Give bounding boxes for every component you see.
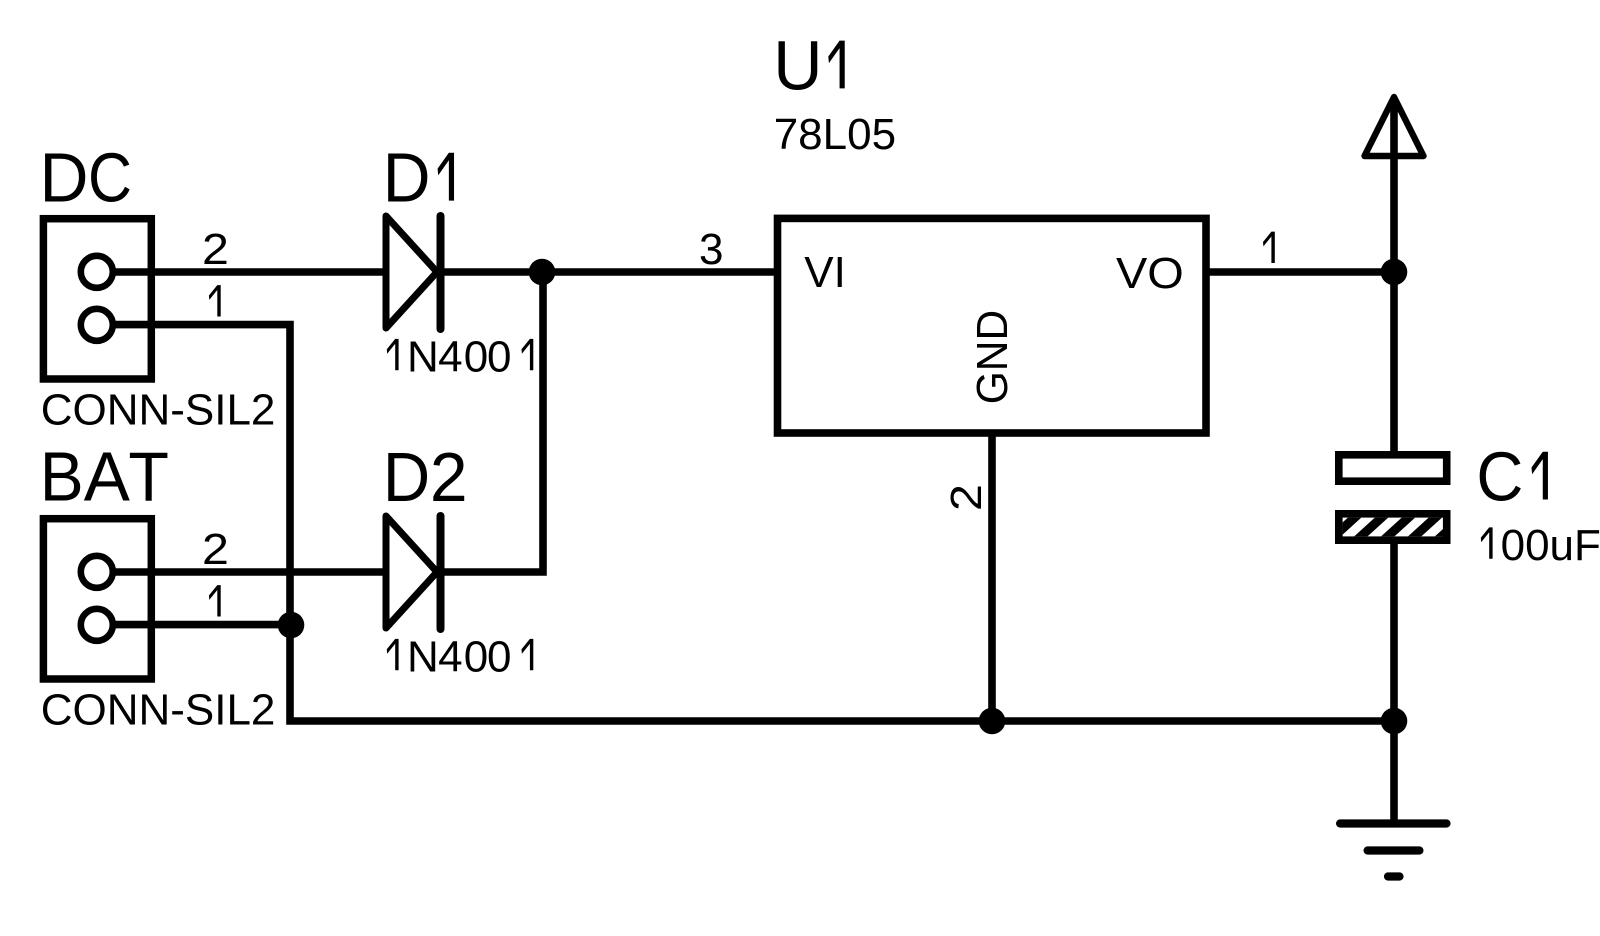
svg-text:2: 2 — [430, 438, 468, 516]
label D1 — [383, 140, 454, 217]
wire power symbol vertical down to C1 top plate — [1390, 100, 1398, 454]
wire U1 VO to output node — [1206, 268, 1394, 276]
label U1 — [773, 27, 844, 105]
svg-text:VO: VO — [1116, 249, 1184, 298]
pin label 1 (BAT) — [209, 585, 221, 616]
svg-text:2: 2 — [202, 525, 229, 574]
wire C1 bottom plate to ground rail — [1390, 541, 1398, 721]
svg-text:B: B — [40, 439, 84, 516]
wire U1 GND pin down to ground rail — [988, 433, 996, 721]
connector DC pin 2 circle — [81, 256, 113, 288]
wire DC pin2 to D1 anode — [113, 268, 388, 276]
connector J-DC box CONN-SIL2 — [43, 219, 151, 379]
power symbol arrow — [1365, 97, 1424, 156]
diode D2 cathode bar — [437, 516, 445, 629]
label 1N4001 (D1) — [387, 332, 534, 381]
svg-text:3: 3 — [699, 225, 723, 274]
junction node VO / C1 / power — [1381, 259, 1408, 286]
diode D1 triangle — [386, 216, 437, 328]
capacitor C1 top plate — [1339, 455, 1447, 481]
wire BAT pin1 to junction — [113, 621, 291, 629]
svg-text:T: T — [128, 438, 169, 516]
svg-text:2: 2 — [942, 484, 991, 511]
connector BAT pin 1 circle — [81, 609, 113, 641]
label D2 — [383, 438, 468, 516]
label 1N4001 (D2) — [387, 632, 534, 681]
svg-text:GND: GND — [968, 310, 1017, 405]
pin label 1 (VO wire) — [1263, 232, 1275, 263]
capacitor C1 bottom plate hatched — [1339, 514, 1447, 540]
svg-text:D: D — [383, 439, 430, 516]
junction node BAT pin1 / DC pin1 — [278, 612, 305, 639]
label BAT — [40, 437, 169, 516]
regulator U1 body box — [778, 218, 1207, 433]
svg-text:VI: VI — [804, 248, 846, 297]
svg-text:A: A — [84, 437, 131, 515]
wire D1 cathode to U1 VI — [440, 268, 778, 276]
wire DC pin1 down and bottom ground rail to C1 — [113, 325, 1394, 721]
svg-text:CONN-SIL2: CONN-SIL2 — [41, 386, 276, 435]
junction node C1 on rail — [1381, 708, 1408, 735]
connector BAT pin 2 circle — [81, 556, 113, 588]
label 100uF — [1481, 521, 1600, 570]
svg-text:78L05: 78L05 — [774, 110, 896, 159]
junction node D1/D2 outputs — [529, 259, 556, 286]
wire D2 cathode up to D1 output node — [440, 272, 543, 572]
wire BAT pin2 to D2 anode — [113, 568, 388, 576]
pin label 1 (DC) — [209, 285, 221, 316]
connector DC pin 1 circle — [81, 309, 113, 341]
wire ground rail to ground symbol — [1390, 721, 1398, 826]
svg-text:D: D — [40, 139, 89, 217]
label DC — [40, 139, 132, 217]
svg-text:C: C — [1476, 439, 1523, 516]
svg-text:C: C — [88, 139, 132, 217]
svg-text:00uF: 00uF — [1501, 521, 1600, 570]
svg-text:D: D — [383, 140, 431, 217]
svg-text:N400: N400 — [407, 332, 511, 381]
svg-text:CONN-SIL2: CONN-SIL2 — [41, 686, 276, 735]
svg-text:2: 2 — [202, 225, 229, 274]
ground symbol — [1340, 824, 1446, 877]
connector J-BAT box CONN-SIL2 — [43, 519, 151, 679]
svg-text:U: U — [773, 27, 822, 105]
label C1 — [1476, 439, 1548, 516]
svg-text:N400: N400 — [407, 632, 511, 681]
diode D1 cathode bar — [437, 216, 445, 329]
diode D2 triangle — [386, 516, 437, 628]
junction node GND pin on rail — [979, 708, 1006, 735]
